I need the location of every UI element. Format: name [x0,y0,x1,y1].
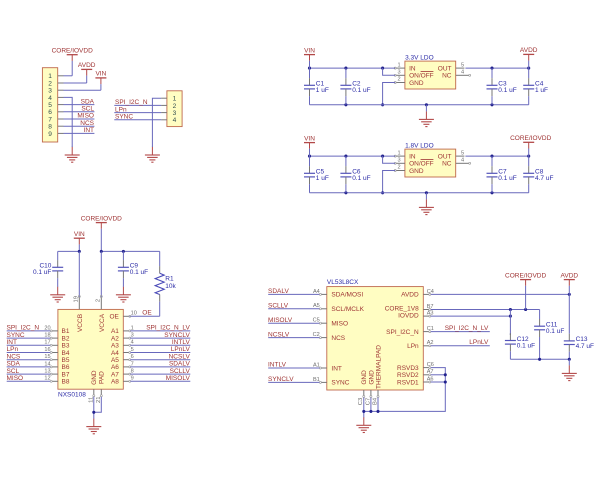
svg-text:SDA: SDA [81,98,95,105]
capacitor C10 [33,251,63,286]
svg-text:PAD: PAD [99,371,106,384]
junction GND at bottom rail [381,103,384,106]
pin 5 A4 [123,347,133,354]
ground under C9 [116,287,131,303]
pin 10 OE [123,310,137,317]
svg-text:0.1 uF: 0.1 uF [352,87,370,94]
svg-text:CORE/IOVDD: CORE/IOVDD [510,135,551,142]
pin 14 B6 [44,361,58,368]
wire C12 drop [509,310,511,336]
wire net SCL (B side) [7,373,51,375]
wire net SPI_I2C_N_LV (A side) [130,330,190,332]
wire net SPI_I2C_N (B side) [7,330,51,332]
pin 8 A7 [123,369,133,376]
pin C5 MISO [313,318,327,325]
junction bottom C3 [490,191,493,194]
pin 20 B1 [44,325,58,332]
svg-text:A7: A7 [111,371,119,378]
svg-text:INT: INT [331,365,342,372]
svg-text:4: 4 [48,95,52,102]
svg-text:0.1 uF: 0.1 uF [33,269,51,276]
svg-text:LPn: LPn [115,106,127,113]
svg-text:5: 5 [461,62,464,68]
net label LPn [115,106,127,113]
svg-text:INTLV: INTLV [172,339,191,346]
svg-text:NCS: NCS [7,353,21,360]
wire net INT (B side) [7,344,51,346]
svg-text:A6: A6 [111,364,119,371]
ground symbol [419,193,434,215]
wire ground rail [310,104,529,106]
svg-text:SPI_I2C_N: SPI_I2C_N [386,329,419,336]
pin A1 INT [313,362,327,369]
capacitor C4 [523,68,548,105]
svg-text:A1: A1 [111,328,119,335]
wire GND pad 2 [93,397,95,419]
svg-text:NCSLV: NCSLV [268,331,290,338]
svg-text:MISO: MISO [331,321,348,328]
net label INTLV [172,339,191,346]
pin C4 [423,289,434,296]
wire ground rail [310,192,529,194]
wire net INTLV [268,367,319,369]
svg-text:2: 2 [95,299,101,302]
svg-text:RSVD1: RSVD1 [397,379,419,386]
pin 1 A1 [123,325,133,332]
capacitor C12 [505,333,535,359]
net label NCSLV [169,353,191,360]
wire B4 gnd [377,398,379,412]
junction CORE/VCCA [100,250,103,253]
svg-text:19: 19 [73,296,79,302]
svg-text:CORE/IOVDD: CORE/IOVDD [505,272,546,279]
wire C7 gnd [370,398,372,412]
junction B7/CORE supply [524,308,527,311]
junction A3 tie [509,315,512,318]
net label SDA [81,98,95,105]
wire C3 gnd [363,398,365,418]
svg-text:A3: A3 [111,343,119,350]
svg-text:SYNC: SYNC [115,114,133,121]
pin B7 [423,304,433,311]
junction C7 gnd [369,410,372,413]
capacitor C13 [564,294,594,359]
pin 7 A6 [123,361,133,368]
pin A7 [423,369,433,376]
svg-text:NCS: NCS [331,335,345,342]
wire J1 pin3 to VIN [64,89,101,91]
wire IOVDD net (A3) [431,315,511,317]
wire CORE rail [101,250,159,252]
wire J1 net SDA [64,104,95,106]
svg-text:0.1 uF: 0.1 uF [498,175,516,182]
pins C3/C7/B4 GND+THERMALPAD [358,390,379,405]
svg-text:SCL: SCL [81,106,94,113]
junction B4 gnd [376,410,379,413]
net label SPI_I2C_N_LV [146,325,190,332]
junction VIN/VCCB [78,250,81,253]
net label SYNC [7,332,25,339]
svg-text:SCL/MCLK: SCL/MCLK [331,306,364,313]
wire J2 net LPn [114,112,161,114]
svg-text:4.7 uF: 4.7 uF [576,343,594,350]
svg-text:AVDD: AVDD [561,272,579,279]
ground under J2 [145,147,160,163]
pin 16 B4 [44,347,58,354]
wire VCCB drop [78,251,80,297]
junction bottom gnd [425,191,428,194]
svg-text:A4: A4 [111,350,119,357]
svg-text:ON/OFF: ON/OFF [409,161,434,168]
svg-text:4: 4 [173,117,177,124]
pins 19 (VCCB) and 2 (VCCA) [73,296,102,310]
ToF sensor U3 VL53L8CX [327,279,424,390]
net label MISO [7,375,24,382]
junction C13 gnd [568,358,571,361]
net label NCSLV [268,331,290,338]
svg-text:1.8V LDO: 1.8V LDO [405,142,434,149]
net label SYNCLV [268,376,294,383]
junction bottom gnd [425,103,428,106]
connector J1 (9-pin header) [42,68,63,142]
svg-text:SPI_I2C_N: SPI_I2C_N [7,325,40,332]
junction C3 gnd [362,410,365,413]
net label SDALV [169,361,190,368]
svg-text:LPn: LPn [407,343,419,350]
ground symbol [419,105,434,127]
ground under C10 [50,287,65,303]
net label SPI_I2C_N_LV [445,325,489,332]
svg-text:AVDD: AVDD [401,292,419,299]
junction bottom C3 [490,103,493,106]
pin 12 B8 [44,376,58,383]
wire VCCA drop [100,251,102,297]
svg-text:IOVDD: IOVDD [398,313,419,320]
net label SDALV [268,288,289,295]
net label MISO [77,113,94,120]
pin 18 B2 [44,333,58,340]
svg-text:SYNCLV: SYNCLV [164,332,190,339]
svg-text:OE: OE [109,314,119,321]
wire J1 net SCL [64,111,95,113]
svg-text:OUT: OUT [438,153,452,160]
svg-text:VIN: VIN [304,135,315,142]
net label NCS [7,353,21,360]
wire J1 net MISO [64,118,95,120]
wire ON/OFF tie [383,68,396,75]
wire VIN rail [310,67,396,69]
wire net SYNC (B side) [7,337,51,339]
svg-text:VIN: VIN [304,47,315,54]
wire LPnLV net [431,345,490,347]
wire GND drop [383,171,396,193]
svg-text:0.1 uF: 0.1 uF [130,269,148,276]
pin 13 B7 [44,369,58,376]
wire J1 pin1 to CORE/IOVDD [64,75,73,77]
capacitor C7 [487,156,517,193]
svg-text:SCLLV: SCLLV [268,303,289,310]
net label SYNC [115,114,133,121]
wire AVDD net [431,293,570,295]
svg-text:GND: GND [361,370,368,385]
net label MISOLV [166,375,191,382]
ground under C13 [562,359,577,380]
svg-text:2: 2 [398,165,401,171]
svg-text:SDALV: SDALV [169,361,190,368]
svg-text:1 uF: 1 uF [535,87,548,94]
ground under VL53L8CX [356,417,371,433]
wire net LPnLV (A side) [130,352,190,354]
ground under NXS0108 [86,419,101,434]
svg-text:5: 5 [48,102,52,109]
net label OE [142,310,152,317]
connector J2 (4-pin header) [161,91,182,127]
svg-text:CORE/IOVDD: CORE/IOVDD [81,215,122,222]
svg-text:GND: GND [409,80,424,87]
svg-text:B6: B6 [62,364,70,371]
svg-text:R1: R1 [165,276,174,283]
svg-text:NC: NC [442,73,452,80]
junction bottom C2 [344,103,347,106]
capacitor C3 [487,68,517,105]
net label SYNCLV [164,332,190,339]
ground under J1 [65,147,80,163]
power flag AVDD [78,62,96,83]
svg-text:2: 2 [48,80,52,87]
net label SCLLV [268,303,289,310]
wire GND pad [94,397,102,413]
junction GND pad [92,411,95,414]
svg-text:VCCA: VCCA [99,313,106,332]
junction at C input cap [344,67,347,70]
svg-text:A8: A8 [111,379,119,386]
junction at output cap [490,67,493,70]
wire sensor gnd rail [510,358,569,360]
svg-text:LPnLV: LPnLV [171,346,191,353]
wire OUT rail [465,67,528,69]
junction at output cap [490,155,493,158]
svg-text:SCLLV: SCLLV [170,368,191,375]
svg-text:B7: B7 [62,371,70,378]
junction B7/C12 [509,308,512,311]
svg-text:2: 2 [398,77,401,83]
svg-text:B1: B1 [62,328,70,335]
svg-text:A5: A5 [111,357,119,364]
wire net NCSLV [268,337,319,339]
wire net NCSLV (A side) [130,359,190,361]
wire net MISO (B side) [7,380,51,382]
pins 11/21 GND PAD [88,389,102,403]
svg-text:1 uF: 1 uF [316,87,329,94]
svg-text:INT: INT [7,339,18,346]
wire net MISOLV (A side) [130,380,190,382]
wire net SCLLV (A side) [130,373,190,375]
capacitor C1 [304,68,329,105]
svg-text:MISO: MISO [7,375,24,382]
svg-text:MISO: MISO [77,113,94,120]
wire net INTLV (A side) [130,344,190,346]
capacitor C5 [304,156,329,193]
wire J2 net SPI_I2C_N [114,104,161,106]
svg-text:1: 1 [48,73,52,80]
capacitor C8 [523,156,553,193]
svg-text:MISOLV: MISOLV [166,375,191,382]
svg-text:1: 1 [398,62,401,68]
wire J1 net INT [64,132,95,134]
svg-text:SPI_I2C_N: SPI_I2C_N [115,99,148,106]
svg-text:SDALV: SDALV [268,288,289,295]
net label SPI_I2C_N [115,99,148,106]
svg-text:1: 1 [398,150,401,156]
svg-text:RSVD3: RSVD3 [397,365,419,372]
svg-text:RSVD2: RSVD2 [397,372,419,379]
svg-text:10: 10 [131,310,137,316]
net label LPn [7,346,19,353]
svg-text:OE: OE [142,310,152,317]
junction C9 [122,250,125,253]
junction at VIN [308,155,311,158]
level shifter U2 NXS0108 [58,309,123,398]
wire J2 net SYNC [114,119,161,121]
wire RSVD3 loop [364,368,446,412]
svg-text:4: 4 [461,70,464,76]
svg-text:VCCB: VCCB [77,314,84,332]
wire net SYNCLV [268,381,319,383]
junction at ON/OFF tie [381,155,384,158]
svg-text:2: 2 [173,103,177,110]
pin 4 A3 [123,340,133,347]
wire net SYNCLV (A side) [130,337,190,339]
svg-text:CORE_1V8: CORE_1V8 [385,305,419,312]
junction GND at bottom rail [381,191,384,194]
svg-text:3: 3 [398,70,401,76]
svg-text:0.1 uF: 0.1 uF [498,87,516,94]
junction at output supply [527,155,530,158]
resistor R1 10k [155,251,176,316]
net label MISOLV [268,317,293,324]
net label INT [84,127,95,134]
capacitor C11 [534,310,564,360]
junction bottom C2 [344,191,347,194]
svg-text:1: 1 [173,96,177,103]
voltage regulator U (1.8V LDO) [405,142,456,177]
net label SCLLV [170,368,191,375]
svg-text:SCL: SCL [7,368,20,375]
wire J1 pin2 to AVDD [64,82,87,84]
wire SPI_I2C_N_LV net [431,331,490,333]
junction at output supply [527,67,530,70]
capacitor C6 [340,156,370,193]
svg-text:4.7 uF: 4.7 uF [535,175,553,182]
svg-text:0.1 uF: 0.1 uF [517,342,535,349]
svg-text:A2: A2 [111,335,119,342]
power flag CORE/IOVDD [52,47,93,75]
wire RSVD1 tie [431,381,446,383]
svg-text:C7: C7 [365,398,371,405]
power flag VIN (1.8V LDO input) [304,135,315,156]
net label INTLV [268,362,287,369]
svg-text:SYNC: SYNC [7,332,25,339]
regulator pins [394,150,471,171]
wire net MISOLV [268,322,319,324]
svg-text:LPn: LPn [7,346,19,353]
wire net SCLLV [268,308,319,310]
pin 15 B5 [44,354,58,361]
wire net SDALV [268,293,319,295]
svg-text:3: 3 [398,158,401,164]
net label SDA [7,361,21,368]
pin 9 A8 [123,376,133,383]
pin A5 SCL/MCLK [313,303,327,310]
svg-text:10k: 10k [165,283,176,290]
wire J1 net NCS [64,125,95,127]
wire J1 pin4 to ground [64,97,73,147]
net label NCS [80,120,94,127]
svg-text:B4: B4 [372,397,378,405]
junction C11 gnd [538,358,541,361]
svg-text:VIN: VIN [95,71,106,78]
net label INT [7,339,18,346]
svg-text:SYNCLV: SYNCLV [268,376,294,383]
pin 17 B3 [44,340,58,347]
svg-text:VL53L8CX: VL53L8CX [327,279,359,286]
svg-text:7: 7 [48,116,52,123]
junction at C input cap [344,155,347,158]
capacitor C2 [340,68,370,105]
svg-text:MISOLV: MISOLV [268,317,293,324]
svg-text:B5: B5 [62,357,70,364]
junction RSVD1 [444,380,447,383]
junction AVDD [568,293,571,296]
wire VIN rail [310,155,396,157]
svg-text:INT: INT [84,127,95,134]
svg-text:B8: B8 [62,379,70,386]
pin C1 [423,326,434,333]
power flag VIN (3.3V LDO input) [304,47,315,68]
wire OUT rail [465,155,528,157]
svg-text:5: 5 [461,150,464,156]
svg-text:LPnLV: LPnLV [469,339,489,346]
svg-text:6: 6 [48,109,52,116]
svg-text:0.1 uF: 0.1 uF [352,175,370,182]
svg-text:GND: GND [91,370,98,385]
power flag AVDD (3.3V output) [520,47,538,68]
svg-text:IN: IN [409,153,416,160]
svg-text:VIN: VIN [74,231,85,238]
svg-text:B3: B3 [62,343,70,350]
voltage regulator U (3.3V LDO) [405,54,456,89]
svg-text:GND: GND [368,370,375,385]
svg-text:NC: NC [442,161,452,168]
svg-text:4: 4 [461,158,464,164]
svg-text:3: 3 [48,88,52,95]
svg-text:NCS: NCS [80,120,94,127]
svg-text:OUT: OUT [438,65,452,72]
wire ON/OFF tie [383,156,396,163]
svg-text:SPI_I2C_N_LV: SPI_I2C_N_LV [146,325,190,332]
power flag AVDD (sensor) [561,272,579,294]
svg-text:NXS0108: NXS0108 [58,392,86,399]
wire CORE_1V8 net (B7) [431,309,540,311]
svg-text:3.3V LDO: 3.3V LDO [405,54,434,61]
power flag CORE/IOVDD (level shifter) [81,215,122,251]
svg-text:8: 8 [48,124,52,131]
power flag VIN [95,71,106,91]
capacitor C9 [118,251,148,286]
svg-text:SYNC: SYNC [331,380,349,387]
pin A6 [423,376,433,383]
junction at ON/OFF tie [381,67,384,70]
